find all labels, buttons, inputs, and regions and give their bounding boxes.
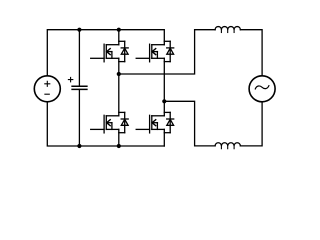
wire: DC bottom rail: [47, 102, 164, 146]
node: top rail leg1 junction: [117, 28, 121, 32]
transistor Q4 lower-right with body diode: [136, 112, 174, 133]
node: leg2 midpoint: [162, 99, 166, 103]
transistor Q1 upper-left with body diode: [91, 41, 128, 62]
capacitor C1: [78, 30, 80, 86]
transistor Q2 upper-right with body diode: [136, 41, 174, 62]
ac source VA: [249, 76, 275, 102]
node: leg1 midpoint: [117, 72, 121, 76]
voltage source V1: [34, 76, 60, 102]
wire: L1 to AC source: [240, 30, 262, 76]
node: top rail cap junction: [77, 28, 81, 32]
wire: leg1 output to top: [119, 30, 215, 74]
wire: leg2 output to bottom: [164, 101, 215, 146]
wire: leg1 verticals: [118, 30, 120, 45]
node: bottom rail leg1 junction: [117, 144, 121, 148]
inductor L1: [215, 27, 240, 30]
node: bottom rail cap junction: [77, 144, 81, 148]
wire: DC top rail: [47, 30, 164, 76]
transistor Q3 lower-left with body diode: [91, 112, 128, 133]
wire: leg2 verticals: [163, 58, 165, 116]
inductor L2: [215, 143, 240, 146]
wire: L2 to AC source: [240, 102, 262, 146]
